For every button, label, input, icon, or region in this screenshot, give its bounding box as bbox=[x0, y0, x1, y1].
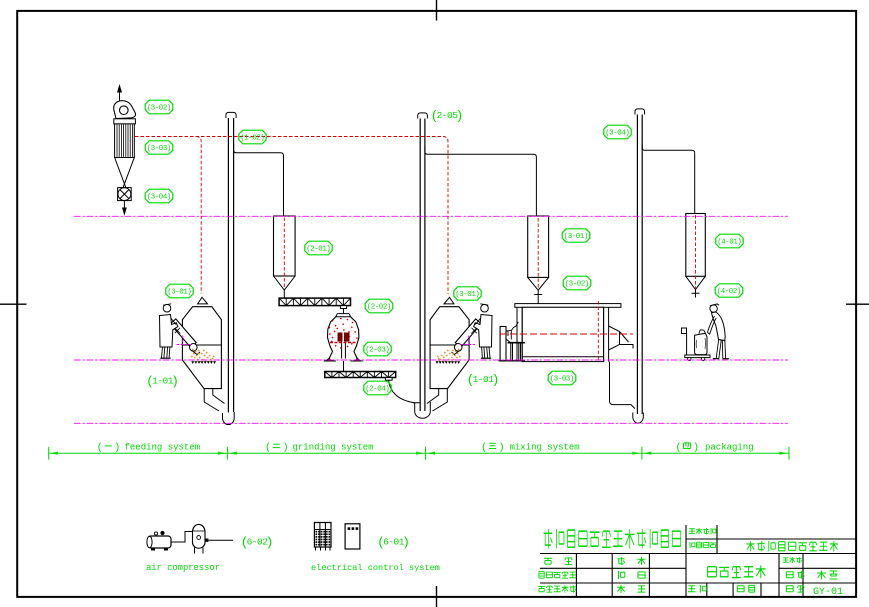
packing cart bbox=[682, 328, 687, 334]
grinder 2-03 bbox=[336, 314, 351, 317]
surge bin 3-01 bbox=[528, 216, 549, 277]
svg-text:GY-01: GY-01 bbox=[813, 587, 843, 598]
label 3-04 bbox=[145, 189, 173, 203]
mixer discharge chute right bbox=[609, 326, 633, 350]
magenta level line top bbox=[74, 215, 788, 217]
tubie bbox=[786, 572, 793, 578]
magenta level line middle bbox=[74, 359, 788, 361]
gongcheng fuzeren bbox=[539, 572, 544, 579]
feed pipe elevator3 to hopper 4-01 bbox=[642, 145, 695, 214]
svg-text:(3-02): (3-02) bbox=[565, 281, 589, 289]
svg-text:(3-01): (3-01) bbox=[564, 233, 588, 241]
svg-text:(: ( bbox=[97, 442, 103, 454]
storage bin 2-01 bbox=[274, 216, 296, 276]
bag on scale bbox=[695, 333, 707, 354]
centering mark right bbox=[846, 303, 869, 305]
feed pipe elevator2 to bin 3-01 bbox=[425, 146, 537, 216]
label 4-02 bbox=[715, 284, 743, 297]
bucket elevator 1-02 bbox=[226, 112, 236, 118]
project name label bbox=[689, 529, 695, 534]
mixer discharge pipe to elevator 3 bbox=[610, 362, 635, 409]
svg-text:(: ( bbox=[481, 442, 487, 454]
mixer drive motor bbox=[500, 327, 506, 361]
centering mark bottom bbox=[436, 586, 438, 607]
control cabinet panel bbox=[345, 524, 360, 549]
control cabinet 6-01 bbox=[314, 523, 331, 548]
label 1-02 bbox=[239, 130, 266, 144]
discharge arrow bbox=[123, 201, 125, 208]
svg-text:(3-04): (3-04) bbox=[147, 194, 171, 202]
screw conveyor 2-04 bbox=[325, 372, 396, 378]
svg-text:): ) bbox=[283, 442, 289, 454]
gongzhong fuzeren bbox=[538, 586, 545, 591]
svg-text:(2-02): (2-02) bbox=[367, 304, 391, 312]
svg-text:): ) bbox=[492, 373, 500, 388]
riqi bbox=[737, 586, 744, 592]
bucket elevator 2-05 bbox=[418, 113, 428, 119]
feed pipe elevator1 to bin 2-01 bbox=[234, 144, 284, 216]
svg-text:electrical control system: electrical control system bbox=[311, 563, 440, 573]
svg-text:): ) bbox=[693, 442, 699, 454]
screw conveyor 2-02 bbox=[279, 298, 350, 306]
svg-text:): ) bbox=[266, 535, 274, 550]
svg-text:): ) bbox=[171, 374, 179, 389]
gongchenghao bbox=[783, 558, 789, 563]
svg-text:(2-04): (2-04) bbox=[365, 386, 389, 394]
svg-text:air compressor: air compressor bbox=[146, 563, 220, 573]
label 2-03 bbox=[364, 342, 391, 356]
svg-text:(3-04): (3-04) bbox=[605, 130, 629, 138]
svg-text:(3-01): (3-01) bbox=[455, 291, 479, 299]
svg-text:(3-02): (3-02) bbox=[147, 105, 171, 113]
sub item value text bbox=[746, 541, 754, 551]
worker at packer bbox=[710, 305, 717, 312]
centering mark left bbox=[0, 303, 27, 305]
svg-text:): ) bbox=[114, 442, 120, 454]
fan 3-02 bbox=[114, 101, 136, 119]
red centerline hopper 4-01 bbox=[695, 215, 697, 289]
elevator 2 boot bbox=[413, 402, 430, 418]
elevator 1 boot bbox=[223, 412, 235, 425]
bin 3-01 spout bbox=[534, 290, 542, 303]
feeder 1-01 with worker (section 1) bbox=[198, 297, 208, 304]
mixer 3-02/3-03 bbox=[515, 304, 621, 308]
magenta level line bottom bbox=[74, 422, 788, 424]
svg-text:(4-02): (4-02) bbox=[717, 288, 741, 296]
drawing title gongyi liucheng tu bbox=[708, 567, 717, 577]
rotary valve 3-04 bbox=[118, 188, 132, 201]
packing hopper 4-01 bbox=[686, 214, 706, 277]
svg-text:(3-03): (3-03) bbox=[147, 145, 171, 153]
svg-text:grinding system: grinding system bbox=[293, 443, 374, 453]
bag filter 3-03 bbox=[114, 119, 136, 124]
red centerline bin 2-01 bbox=[283, 218, 285, 290]
chute 2-04 to elevator 2 boot bbox=[389, 380, 415, 403]
centering mark top bbox=[436, 0, 438, 21]
she ji bbox=[617, 557, 624, 565]
label 3-01 feeder2 bbox=[454, 287, 481, 300]
red flow line from bag filter to feeders bbox=[135, 137, 448, 295]
svg-text:feeding system: feeding system bbox=[125, 443, 201, 453]
red centerline bin 3-01 bbox=[537, 218, 539, 290]
label 2-04 bbox=[364, 381, 391, 395]
bili bbox=[688, 586, 696, 592]
red mixer shaft line bbox=[500, 333, 633, 335]
dimension line bbox=[49, 452, 789, 454]
sub item label bbox=[690, 542, 695, 548]
label 3-04 elevator bbox=[604, 125, 631, 139]
label 3-01 bin bbox=[562, 229, 590, 242]
red mixer vertical centerline bbox=[597, 301, 599, 362]
feeder 1-01 with worker (section 3) bbox=[444, 297, 454, 304]
zhi tu bbox=[618, 571, 624, 579]
svg-text:(2-03): (2-03) bbox=[365, 347, 389, 355]
svg-text:(2-01): (2-01) bbox=[306, 246, 330, 254]
svg-text:(4-01): (4-01) bbox=[717, 239, 741, 247]
hopper 4-01 spout bbox=[692, 290, 700, 298]
svg-text:): ) bbox=[499, 442, 505, 454]
svg-text:(3-03): (3-03) bbox=[550, 376, 574, 384]
label 3-02 bbox=[145, 100, 173, 114]
label 2-01 bbox=[305, 241, 332, 255]
svg-text:mixing system: mixing system bbox=[510, 443, 580, 453]
svg-text:(: ( bbox=[265, 442, 271, 454]
svg-text:(1-02): (1-02) bbox=[240, 135, 264, 143]
label 3-03 mixer bbox=[548, 371, 576, 385]
svg-text:packaging: packaging bbox=[705, 443, 754, 453]
svg-text:): ) bbox=[456, 109, 464, 124]
svg-text:(: ( bbox=[676, 442, 682, 454]
bucket elevator 3-04 bbox=[635, 109, 645, 115]
fang an value bbox=[817, 571, 826, 580]
filter cone bbox=[115, 158, 135, 189]
label 3-02 mixer bbox=[563, 276, 591, 290]
elevator 3 boot bbox=[633, 413, 644, 424]
jiao dui bbox=[617, 585, 625, 593]
company name text bbox=[544, 529, 553, 548]
shen ding bbox=[544, 558, 552, 564]
label 4-01 bbox=[716, 234, 743, 248]
svg-text:): ) bbox=[402, 535, 410, 550]
exhaust arrow bbox=[119, 92, 121, 101]
air compressor 6-02 bbox=[148, 536, 171, 548]
tuhao bbox=[786, 586, 793, 592]
label 2-02 bbox=[365, 299, 393, 313]
svg-text:(3-01): (3-01) bbox=[167, 289, 191, 297]
label 3-03 bbox=[145, 141, 173, 154]
label 3-01 feeder1 bbox=[166, 284, 193, 298]
red flow line branch down to feeder 1 bbox=[196, 137, 201, 294]
title block bbox=[540, 525, 856, 597]
air tank bbox=[193, 524, 206, 548]
